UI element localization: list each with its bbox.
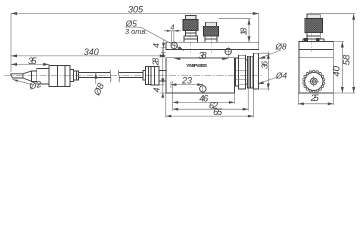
side connector base <box>303 39 324 41</box>
tube break marks <box>110 70 119 82</box>
left connector centerline <box>190 14 192 53</box>
body block <box>166 58 235 93</box>
side view block <box>299 42 333 94</box>
leader dia8 valve <box>259 50 281 59</box>
dim 4 left vertical bits <box>161 40 166 56</box>
svg-text:28: 28 <box>151 58 161 67</box>
svg-text:305: 305 <box>128 5 144 15</box>
leader dia2 <box>12 79 33 84</box>
arrows 36 <box>267 53 270 59</box>
handle step E <box>70 70 74 82</box>
arrows 62 <box>173 108 179 111</box>
arrows 340 <box>11 54 17 57</box>
dim 18 line <box>248 19 250 43</box>
dim 4 top dim bits <box>164 31 181 42</box>
dim 38 line <box>174 58 228 60</box>
tube right segment <box>119 73 143 78</box>
svg-text:Ø8: Ø8 <box>274 42 286 52</box>
dim 305 line <box>11 13 259 15</box>
dim 40 line <box>333 42 344 94</box>
dim 35 line <box>11 63 49 65</box>
fitting neck <box>159 71 166 81</box>
handle nut facet lines <box>57 66 65 87</box>
right connector cap <box>206 22 217 26</box>
svg-text:40: 40 <box>332 65 343 76</box>
top plate <box>166 42 259 49</box>
svg-text:4: 4 <box>170 23 174 32</box>
left connector neck <box>185 30 196 35</box>
leader dia4 valve <box>258 77 278 84</box>
arrow leader dia4 valve <box>258 81 265 84</box>
dim 18 extension from connector <box>219 18 251 20</box>
valve ring big <box>239 55 246 89</box>
arrows 25 <box>298 102 304 105</box>
svg-text:4: 4 <box>151 43 161 48</box>
dim 305 right extension <box>258 14 260 43</box>
arrows 23 <box>171 83 177 86</box>
left connector base <box>184 36 197 42</box>
right connector knurl <box>204 26 219 36</box>
dim 58 extension top and line <box>317 14 355 93</box>
dim 23 line <box>171 82 203 89</box>
arrows 38 <box>174 57 180 60</box>
dim 36 line <box>259 52 269 91</box>
arrow leader dia8 tube <box>94 73 97 79</box>
svg-text:46: 46 <box>199 94 208 104</box>
svg-text:Ø4: Ø4 <box>275 71 287 81</box>
handle ring1 <box>32 71 37 81</box>
side connector centerline <box>311 13 313 53</box>
svg-text:35: 35 <box>28 56 37 66</box>
knob inner circles <box>310 78 317 85</box>
leader dia5 <box>125 27 184 50</box>
dim 4 bottom-left bits <box>160 80 166 98</box>
arrows 65 <box>166 115 172 118</box>
arrow 28 <box>161 78 164 84</box>
side connector cap <box>307 14 320 19</box>
handle collar F <box>74 71 79 80</box>
dim 28 line <box>159 48 164 85</box>
svg-text:58: 58 <box>342 54 353 65</box>
valve knurl ring <box>248 56 254 88</box>
right connector centerline <box>210 21 212 53</box>
arrow 4 bottom-left <box>161 93 164 98</box>
right connector base <box>205 36 217 42</box>
arrows 18 <box>248 19 251 25</box>
side connector neck <box>307 33 320 40</box>
arrow leader dia5 <box>178 46 184 50</box>
plate hole right <box>225 48 231 54</box>
arrows 35 <box>11 63 17 66</box>
dim 35 right extension <box>48 64 50 65</box>
valve internal step lines <box>235 71 247 80</box>
nozzle tip tube <box>11 74 24 78</box>
fitting block <box>151 67 159 86</box>
side view plate bottom line <box>299 48 333 50</box>
arrows 58 <box>352 14 355 20</box>
centerline main view <box>4 74 263 76</box>
arrow leader dia2 <box>12 79 18 82</box>
left connector knurl <box>183 20 198 31</box>
svg-text:340: 340 <box>84 47 99 57</box>
svg-text:38: 38 <box>199 50 207 60</box>
arrows 40 <box>341 42 344 48</box>
handle body <box>37 68 49 84</box>
knob cross ticks <box>308 76 319 87</box>
valve ring shoulder lines <box>239 58 246 84</box>
valve groove <box>246 60 248 84</box>
tube left segment <box>79 73 111 78</box>
svg-text:4: 4 <box>152 87 162 92</box>
leader dia8 tube <box>95 73 97 84</box>
dim 340 line <box>11 55 166 57</box>
dim 25 line <box>298 93 333 105</box>
dim 62 line <box>173 81 249 111</box>
svg-text:18: 18 <box>239 28 249 36</box>
svg-text:25: 25 <box>310 93 320 103</box>
svg-text:YS-BPV-3000: YS-BPV-3000 <box>186 63 207 69</box>
nozzle cone <box>23 71 32 81</box>
side connector knurl <box>305 19 323 33</box>
arrows 46 <box>173 101 179 104</box>
arrow 4 top <box>167 30 172 32</box>
handle nut section <box>49 66 70 87</box>
arrows 305 <box>11 12 17 15</box>
knob outer knurled circle <box>303 70 325 93</box>
svg-text:36: 36 <box>259 61 269 69</box>
dim 46 line <box>173 93 235 104</box>
fitting hex nut <box>146 67 152 85</box>
plate hole left <box>171 42 177 48</box>
body bottom hole <box>200 86 206 92</box>
valve end disc <box>254 53 259 89</box>
left connector cap <box>185 15 196 19</box>
svg-text:3 отв.: 3 отв. <box>125 27 148 36</box>
common left extension line <box>10 14 12 73</box>
valve collar at body right <box>235 58 238 86</box>
arrow leader dia8 valve <box>259 56 266 59</box>
dim 65 line <box>166 90 254 118</box>
svg-text:65: 65 <box>213 107 223 117</box>
side view block top line <box>299 57 333 59</box>
svg-text:23: 23 <box>181 75 192 85</box>
fitting collar <box>143 71 146 80</box>
arrows 4 left <box>162 43 165 48</box>
